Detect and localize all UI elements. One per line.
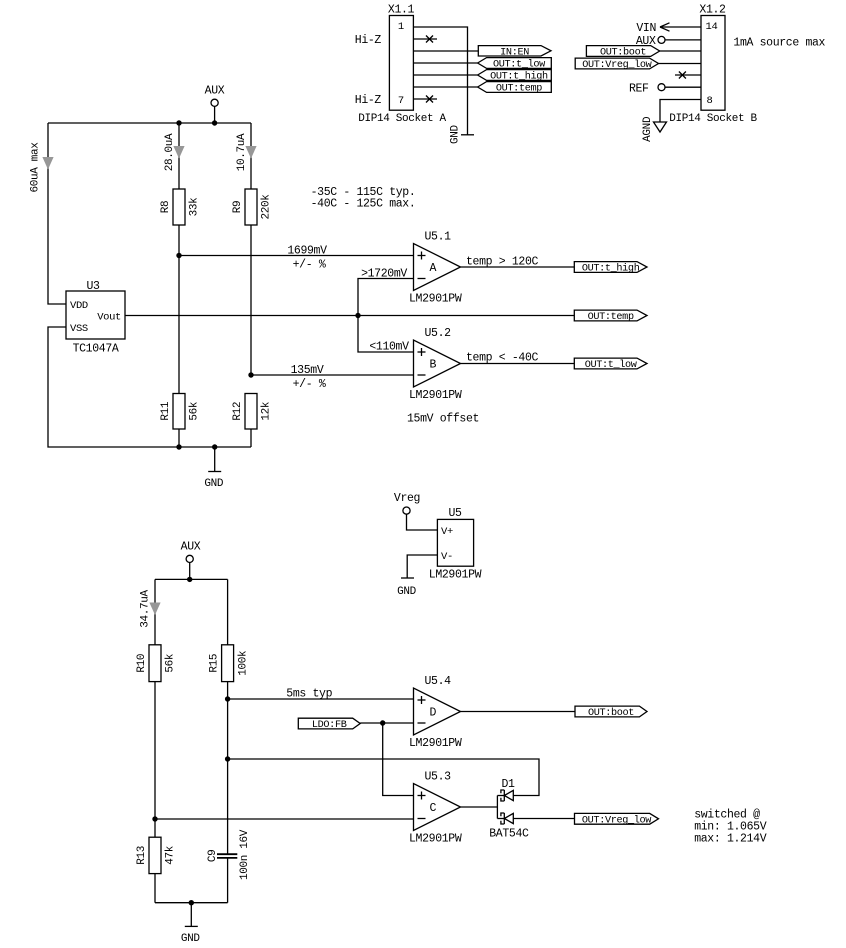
svg-text:<110mV: <110mV bbox=[369, 341, 409, 354]
wire Vout to U5.2 + input bbox=[358, 316, 414, 353]
svg-text:1mA source max: 1mA source max bbox=[733, 37, 825, 50]
flag OUT:boot bbox=[575, 706, 647, 719]
junction bbox=[187, 577, 192, 582]
wire X1.1 pin5 bbox=[413, 74, 477, 76]
svg-text:OUT:temp: OUT:temp bbox=[588, 312, 634, 323]
flag OUT:boot (socket B) bbox=[586, 46, 659, 59]
svg-text:56k: 56k bbox=[165, 653, 177, 673]
ground GND (sensor divider) bbox=[204, 472, 224, 491]
wire X1.2 pin8 to AGND bbox=[660, 100, 701, 123]
wire R15 bottom / C9 top bbox=[227, 682, 229, 855]
IC U3 TC1047A bbox=[66, 280, 125, 356]
op-amp U5.4 bbox=[409, 675, 462, 750]
svg-text:5ms typ: 5ms typ bbox=[286, 688, 332, 701]
wire AUX lower rail bbox=[155, 578, 228, 580]
svg-text:C9: C9 bbox=[207, 850, 219, 863]
wire Vreg to U5 V+ bbox=[407, 514, 438, 530]
op-amp U5.3 bbox=[409, 771, 462, 846]
svg-text:LM2901PW: LM2901PW bbox=[429, 569, 482, 582]
wire AUX rail bbox=[48, 122, 251, 124]
svg-text:LM2901PW: LM2901PW bbox=[409, 737, 462, 750]
svg-text:-40C - 125C max.: -40C - 125C max. bbox=[311, 198, 416, 211]
svg-text:temp > 120C: temp > 120C bbox=[466, 256, 539, 269]
svg-text:Vout: Vout bbox=[97, 311, 121, 323]
svg-text:OUT:temp: OUT:temp bbox=[496, 84, 542, 95]
svg-text:R15: R15 bbox=[209, 654, 221, 673]
wire R15 top leg bbox=[227, 579, 229, 644]
junction bbox=[176, 444, 181, 449]
no-connect X pin2 bbox=[426, 36, 433, 43]
svg-text:AUX: AUX bbox=[205, 85, 225, 98]
flag IN:EN bbox=[478, 46, 551, 59]
svg-text:OUT:boot: OUT:boot bbox=[588, 707, 634, 719]
wire X1.1 pin2 n.c. bbox=[413, 38, 437, 40]
svg-text:VIN: VIN bbox=[636, 22, 656, 35]
wire U3 Vout to OUT:temp bbox=[125, 315, 574, 317]
flag OUT:Vreg_low bbox=[575, 813, 659, 826]
wire U5.4 output bbox=[461, 711, 576, 713]
svg-text:C: C bbox=[430, 802, 437, 815]
wire GND stub bbox=[214, 447, 216, 472]
wire LDO:FB to U5.4 - input bbox=[360, 722, 413, 724]
svg-text:Hi-Z: Hi-Z bbox=[355, 34, 382, 47]
svg-text:LM2901PW: LM2901PW bbox=[409, 389, 462, 402]
junction bbox=[189, 900, 194, 905]
svg-text:14: 14 bbox=[706, 21, 718, 33]
wire LDO:FB to U5.3 + input bbox=[383, 723, 414, 796]
wire R11 bottom leg bbox=[178, 429, 180, 447]
wire U5.3 output to D1 common bbox=[461, 806, 498, 808]
node AUX (lower net label) bbox=[181, 541, 201, 563]
svg-text:D: D bbox=[430, 707, 437, 720]
ground GND (U5) bbox=[397, 578, 417, 598]
op-amp U5.1 bbox=[409, 231, 462, 306]
connector X1.1 DIP14 Socket A bbox=[358, 4, 446, 125]
wire R8 top leg bbox=[178, 123, 180, 189]
junction bbox=[225, 696, 230, 701]
svg-text:AGND: AGND bbox=[642, 116, 654, 142]
IC U5 power symbol bbox=[429, 507, 482, 582]
svg-text:15mV offset: 15mV offset bbox=[407, 413, 479, 426]
svg-text:+/- %: +/- % bbox=[293, 378, 326, 391]
wire X1.1 pin3 bbox=[413, 50, 478, 52]
svg-text:U5.4: U5.4 bbox=[425, 675, 452, 688]
node REF pin (socket B) bbox=[629, 83, 701, 96]
svg-text:AUX: AUX bbox=[181, 541, 201, 554]
svg-text:V+: V+ bbox=[441, 526, 453, 538]
junction bbox=[212, 444, 217, 449]
no-connect X (socket B) bbox=[679, 72, 686, 79]
svg-text:GND: GND bbox=[181, 933, 201, 945]
svg-text:OUT:t_low: OUT:t_low bbox=[585, 359, 638, 371]
svg-text:OUT:boot: OUT:boot bbox=[600, 47, 646, 59]
svg-text:220k: 220k bbox=[261, 194, 273, 220]
wire X1.1 pin1 to GND bbox=[413, 27, 467, 135]
resistor R12 bbox=[232, 394, 273, 430]
flag OUT:t_low (socket A) bbox=[478, 58, 552, 71]
no-connect X pin7 bbox=[426, 96, 433, 103]
wire AUX lower stub bbox=[189, 563, 191, 580]
svg-text:GND: GND bbox=[204, 478, 224, 490]
svg-text:TC1047A: TC1047A bbox=[73, 343, 119, 356]
svg-text:OUT:t_high: OUT:t_high bbox=[582, 263, 640, 275]
svg-text:LM2901PW: LM2901PW bbox=[409, 833, 462, 846]
value label 135mV +/- % bbox=[291, 364, 326, 391]
svg-text:U5.3: U5.3 bbox=[425, 771, 452, 784]
svg-text:>1720mV: >1720mV bbox=[361, 268, 407, 281]
wire X1.1 pin4 bbox=[413, 62, 477, 64]
svg-text:R8: R8 bbox=[160, 201, 172, 214]
current annotation 10.7uA bbox=[236, 133, 257, 171]
resistor R11 bbox=[160, 394, 201, 430]
svg-text:temp < -40C: temp < -40C bbox=[466, 352, 539, 365]
svg-text:X1.2: X1.2 bbox=[699, 4, 726, 17]
current annotation 28.0uA bbox=[164, 133, 185, 171]
svg-text:U5.1: U5.1 bbox=[425, 231, 452, 244]
wire feedback R15 node to D1 bbox=[228, 759, 539, 796]
resistor R15 bbox=[209, 645, 250, 682]
wire X1.2 pin boot bbox=[660, 50, 701, 52]
wire left branch to U3 VDD bbox=[48, 123, 66, 304]
svg-text:12k: 12k bbox=[261, 401, 273, 421]
ground GND (bottom) bbox=[181, 926, 201, 945]
flag OUT:t_high (socket A) bbox=[478, 70, 552, 83]
wire R9 top leg bbox=[250, 123, 252, 189]
junction bbox=[176, 253, 181, 258]
svg-text:R10: R10 bbox=[136, 654, 148, 673]
svg-text:X1.1: X1.1 bbox=[388, 4, 415, 17]
wire R10 top leg bbox=[154, 579, 156, 644]
svg-text:47k: 47k bbox=[165, 845, 177, 865]
svg-text:R11: R11 bbox=[160, 401, 172, 421]
svg-text:DIP14 Socket B: DIP14 Socket B bbox=[669, 113, 757, 125]
resistor R9 bbox=[232, 189, 273, 225]
flag OUT:temp bbox=[574, 310, 647, 323]
wire D1 lower anode to OUT:Vreg_low bbox=[513, 818, 574, 820]
svg-text:R13: R13 bbox=[136, 846, 148, 865]
svg-text:DIP14 Socket A: DIP14 Socket A bbox=[358, 113, 446, 125]
svg-text:28.0uA: 28.0uA bbox=[164, 133, 176, 171]
svg-text:Vreg: Vreg bbox=[394, 492, 420, 505]
wire GND stub (bottom) bbox=[190, 903, 192, 927]
junction bbox=[152, 816, 157, 821]
resistor R8 bbox=[160, 189, 201, 225]
junction bbox=[225, 756, 230, 761]
diode D1 BAT54C bbox=[489, 778, 529, 841]
resistor R10 bbox=[136, 645, 177, 682]
wire U3 VSS to ground rail bbox=[48, 327, 179, 447]
wire R9 bottom leg bbox=[250, 225, 252, 375]
svg-text:7: 7 bbox=[398, 95, 404, 107]
wire X1.1 pin7 n.c. bbox=[413, 98, 437, 100]
junction bbox=[176, 120, 181, 125]
current annotation 34.7uA bbox=[140, 590, 161, 628]
node Vreg net label bbox=[394, 492, 420, 514]
note switched voltage range bbox=[694, 809, 767, 846]
wire R10 to R13 bbox=[154, 682, 156, 838]
svg-text:OUT:t_low: OUT:t_low bbox=[493, 59, 546, 71]
resistor R13 bbox=[136, 837, 177, 873]
junction bbox=[355, 313, 360, 318]
svg-text:OUT:Vreg_low: OUT:Vreg_low bbox=[582, 814, 652, 826]
svg-text:VDD: VDD bbox=[70, 300, 88, 312]
flag OUT:t_low bbox=[574, 358, 647, 371]
svg-text:Hi-Z: Hi-Z bbox=[355, 94, 382, 107]
wire U5.1 output bbox=[461, 266, 575, 268]
svg-text:1: 1 bbox=[398, 21, 404, 33]
wire U5 V- to GND bbox=[407, 555, 437, 578]
wire R11 top leg bbox=[178, 256, 180, 394]
svg-text:GND: GND bbox=[450, 124, 462, 144]
svg-text:B: B bbox=[430, 359, 437, 372]
svg-text:REF: REF bbox=[629, 83, 649, 96]
node AUX pin (socket B) bbox=[636, 35, 701, 48]
op-amp U5.2 bbox=[409, 327, 462, 402]
svg-text:33k: 33k bbox=[189, 197, 201, 217]
flag LDO:FB bbox=[298, 718, 360, 731]
junction bbox=[248, 372, 253, 377]
svg-text:+/- %: +/- % bbox=[293, 259, 326, 272]
svg-text:100n 16V: 100n 16V bbox=[239, 829, 251, 880]
svg-text:max: 1.214V: max: 1.214V bbox=[694, 833, 767, 846]
svg-text:10.7uA: 10.7uA bbox=[236, 133, 248, 171]
wire 135mV reference to U5.2 - input bbox=[251, 374, 414, 376]
connector X1.2 DIP14 Socket B bbox=[669, 4, 757, 125]
wire X1.1 pin6 bbox=[413, 86, 477, 88]
wire bottom rail bbox=[179, 446, 251, 448]
wire R12 bottom leg bbox=[250, 429, 252, 447]
svg-text:LDO:FB: LDO:FB bbox=[312, 720, 347, 731]
wire 5ms line to U5.4 + input bbox=[228, 698, 414, 700]
svg-text:A: A bbox=[430, 262, 437, 275]
svg-text:OUT:Vreg_low: OUT:Vreg_low bbox=[582, 59, 652, 71]
svg-text:BAT54C: BAT54C bbox=[489, 827, 529, 840]
wire R8 bottom leg bbox=[178, 225, 180, 256]
node AUX (top net label) bbox=[205, 85, 225, 107]
svg-text:IN:EN: IN:EN bbox=[500, 47, 529, 58]
wire bottom ground rail bbox=[155, 902, 228, 904]
wire Vout to U5.1 - input bbox=[358, 279, 414, 316]
current annotation 60uA max bbox=[30, 142, 54, 193]
wire X1.2 pin n.c. bbox=[675, 74, 701, 76]
svg-text:U5: U5 bbox=[448, 507, 462, 520]
wire 1699mV reference to U5.1 + input bbox=[179, 255, 414, 257]
svg-text:D1: D1 bbox=[501, 778, 515, 791]
svg-text:60uA max: 60uA max bbox=[30, 142, 42, 193]
wire C9 bottom leg bbox=[227, 858, 229, 903]
svg-text:R12: R12 bbox=[232, 402, 244, 421]
svg-text:56k: 56k bbox=[189, 401, 201, 421]
wire AUX stub bbox=[214, 106, 216, 123]
svg-text:U5.2: U5.2 bbox=[425, 327, 452, 340]
svg-text:LM2901PW: LM2901PW bbox=[409, 293, 462, 306]
capacitor C9 bbox=[207, 829, 251, 880]
svg-text:OUT:t_high: OUT:t_high bbox=[490, 71, 548, 83]
svg-text:100k: 100k bbox=[237, 650, 249, 676]
flag OUT:Vreg_low (socket B) bbox=[575, 58, 658, 71]
ground AGND bbox=[642, 116, 667, 142]
wire X1.2 pin14 VIN with arrow bbox=[636, 22, 701, 35]
wire X1.2 pin vreg_low bbox=[659, 63, 702, 65]
svg-text:R9: R9 bbox=[232, 201, 244, 214]
svg-text:VSS: VSS bbox=[70, 323, 88, 335]
svg-text:34.7uA: 34.7uA bbox=[140, 590, 152, 628]
wire R13 bottom leg bbox=[154, 874, 156, 903]
svg-text:V-: V- bbox=[441, 551, 453, 563]
wire U5.2 output bbox=[461, 363, 575, 365]
junction bbox=[380, 720, 385, 725]
note temperature range bbox=[311, 186, 416, 211]
flag OUT:t_high bbox=[574, 262, 647, 275]
ground GND (socket A) bbox=[450, 124, 474, 144]
svg-text:1699mV: 1699mV bbox=[287, 245, 327, 258]
wire R10/R13 node to U5.3 - input bbox=[155, 818, 414, 820]
junction bbox=[212, 120, 217, 125]
value label 1699mV +/- % bbox=[287, 245, 327, 272]
svg-text:135mV: 135mV bbox=[291, 364, 324, 377]
flag OUT:temp (socket A) bbox=[478, 82, 552, 95]
svg-text:U3: U3 bbox=[86, 280, 100, 293]
svg-text:GND: GND bbox=[397, 586, 417, 598]
svg-text:8: 8 bbox=[707, 95, 713, 107]
